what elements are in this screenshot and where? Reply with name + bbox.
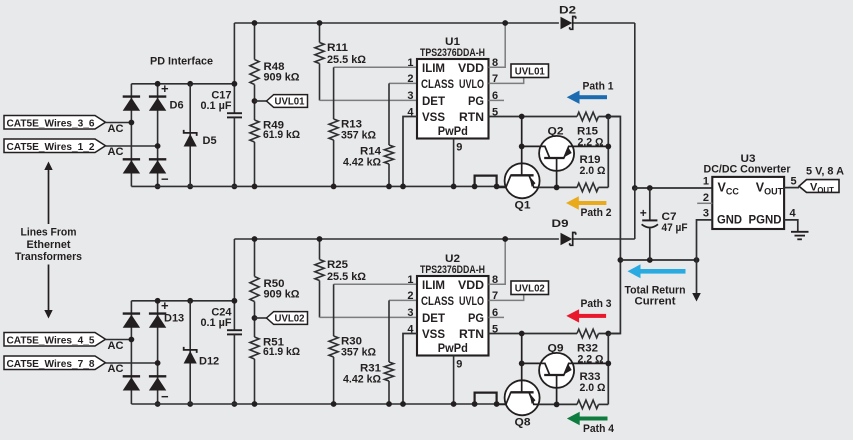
svg-text:Transformers: Transformers xyxy=(15,251,82,263)
junction xyxy=(554,185,560,191)
svg-text:UVL02: UVL02 xyxy=(515,283,546,294)
svg-text:25.5 kΩ: 25.5 kΩ xyxy=(327,54,366,66)
arrow down to pairs xyxy=(48,265,50,312)
junction xyxy=(386,184,392,190)
junction xyxy=(155,401,161,407)
junction xyxy=(317,236,323,242)
diode bridge lower-left xyxy=(123,158,140,160)
svg-text:VSS: VSS xyxy=(422,110,445,124)
wire DET xyxy=(320,316,418,318)
junction xyxy=(472,184,478,190)
wire xyxy=(234,22,559,24)
resistor R49 xyxy=(254,101,256,120)
svg-text:3: 3 xyxy=(703,208,709,220)
svg-text:3: 3 xyxy=(407,90,413,102)
svg-text:AC: AC xyxy=(108,146,124,158)
wire VSS xyxy=(403,334,417,405)
svg-text:D13: D13 xyxy=(164,313,184,325)
junction xyxy=(647,257,653,263)
svg-text:+: + xyxy=(161,81,169,96)
svg-text:Lines From: Lines From xyxy=(21,227,77,239)
junction xyxy=(632,185,638,191)
diode bridge upper-left xyxy=(123,312,140,314)
svg-text:CAT5E_Wires_4_5: CAT5E_Wires_4_5 xyxy=(7,335,95,346)
resistor R13 xyxy=(333,67,335,119)
svg-text:0.1 µF: 0.1 µF xyxy=(201,317,232,329)
wire xyxy=(607,117,609,188)
capacitor C24 xyxy=(227,329,242,331)
capacitor C17 xyxy=(227,112,242,114)
wire xyxy=(574,238,635,240)
node VOUT output xyxy=(799,180,839,193)
svg-text:D5: D5 xyxy=(203,135,217,147)
wire VCC bus xyxy=(635,187,713,189)
node CAT5E_Wires_3_6 xyxy=(4,116,106,130)
wire xyxy=(634,23,636,188)
svg-text:61.9 kΩ: 61.9 kΩ xyxy=(263,129,300,141)
svg-text:Current: Current xyxy=(635,296,676,308)
wire xyxy=(106,122,132,124)
junction xyxy=(451,184,457,190)
junction xyxy=(451,401,457,407)
svg-text:Ethernet: Ethernet xyxy=(27,239,71,251)
svg-text:1: 1 xyxy=(407,57,413,69)
svg-text:AC: AC xyxy=(108,123,124,135)
svg-text:DC/DC Converter: DC/DC Converter xyxy=(704,164,792,176)
diode D9 xyxy=(561,233,573,246)
capacitor C7 47uF xyxy=(649,188,651,220)
op-amp U2 TPS2376DDA-H xyxy=(417,276,489,356)
wire xyxy=(131,300,234,302)
junction xyxy=(519,361,525,367)
junction xyxy=(605,144,611,150)
svg-text:UVLO: UVLO xyxy=(459,77,484,91)
diode D13 bridge upper-right xyxy=(149,312,166,314)
svg-text:ILIM: ILIM xyxy=(422,61,445,75)
svg-text:1: 1 xyxy=(407,274,413,286)
wire xyxy=(131,403,508,405)
svg-text:+: + xyxy=(640,206,647,220)
junction xyxy=(554,402,560,408)
node UVL02 tap xyxy=(255,317,267,319)
node UVL01 box xyxy=(511,64,549,78)
arrow down return xyxy=(696,260,698,294)
resistor R51 xyxy=(254,318,256,337)
junction xyxy=(252,98,258,104)
junction xyxy=(494,184,500,190)
arrow Path 3 xyxy=(566,309,579,322)
junction xyxy=(155,81,161,87)
svg-text:4.42 kΩ: 4.42 kΩ xyxy=(343,374,381,386)
svg-text:Q8: Q8 xyxy=(515,417,531,429)
wire xyxy=(607,334,609,405)
junction xyxy=(187,184,193,190)
wire xyxy=(131,185,508,187)
svg-text:1: 1 xyxy=(703,176,709,188)
junction xyxy=(187,401,193,407)
wire xyxy=(234,238,559,240)
wire staple link xyxy=(475,176,497,187)
junction xyxy=(519,114,525,120)
svg-text:Path 2: Path 2 xyxy=(581,207,612,219)
wire xyxy=(130,301,132,404)
wire VSS xyxy=(403,117,417,187)
svg-text:Q2: Q2 xyxy=(548,126,564,138)
transistor Q9 xyxy=(539,353,574,388)
resistor R32 2.2 xyxy=(577,329,598,338)
wire xyxy=(157,301,159,404)
junction xyxy=(155,143,161,149)
wire xyxy=(634,188,636,239)
arrow Path 4 xyxy=(567,412,580,425)
svg-text:D6: D6 xyxy=(170,99,184,111)
wire PG stub xyxy=(489,99,505,101)
resistor R25 xyxy=(319,239,321,260)
wire VDD xyxy=(489,239,506,284)
svg-text:UVL01: UVL01 xyxy=(275,97,306,108)
resistor R31 xyxy=(388,300,390,362)
junction xyxy=(618,257,624,263)
junction xyxy=(252,315,258,321)
diode bridge lower-left xyxy=(123,375,140,377)
diode D6 bridge upper-right xyxy=(149,95,166,97)
diode bridge lower-right xyxy=(149,158,166,160)
resistor R14 xyxy=(388,83,390,145)
svg-text:RTN: RTN xyxy=(459,110,484,124)
wire GND xyxy=(697,220,713,260)
diode bridge upper-left xyxy=(123,95,140,97)
svg-text:Q9: Q9 xyxy=(548,343,564,355)
wire VDD xyxy=(489,23,506,67)
resistor R11 xyxy=(319,23,321,43)
wire PGND xyxy=(784,220,798,232)
junction xyxy=(502,236,508,242)
svg-text:61.9 kΩ: 61.9 kΩ xyxy=(263,346,300,358)
wire xyxy=(106,339,132,341)
junction xyxy=(155,184,161,190)
svg-text:GND: GND xyxy=(717,213,742,227)
resistor R50 xyxy=(254,239,256,277)
junction xyxy=(472,401,478,407)
svg-text:DET: DET xyxy=(422,311,446,325)
wire UVLO to UVL01 xyxy=(489,78,524,84)
wire xyxy=(157,84,159,187)
svg-text:AC: AC xyxy=(108,340,124,352)
svg-text:4.42 kΩ: 4.42 kΩ xyxy=(343,157,381,169)
wire VOUT xyxy=(784,187,799,189)
junction xyxy=(252,20,258,26)
svg-text:PwPd: PwPd xyxy=(438,124,468,138)
node CAT5E_Wires_1_2 xyxy=(4,139,106,153)
junction xyxy=(331,184,337,190)
wire xyxy=(233,23,235,113)
svg-text:4: 4 xyxy=(790,208,797,220)
junction xyxy=(519,331,525,337)
junction xyxy=(694,257,700,263)
junction xyxy=(187,298,193,304)
svg-text:47 µF: 47 µF xyxy=(662,222,688,234)
resistor R19 2.0 xyxy=(599,186,609,188)
arrow total return current xyxy=(628,264,641,278)
svg-text:AC: AC xyxy=(108,363,124,375)
svg-text:0.1 µF: 0.1 µF xyxy=(201,100,232,112)
zener diode D12 xyxy=(189,301,191,404)
svg-text:2.0 Ω: 2.0 Ω xyxy=(580,382,606,394)
svg-text:357 kΩ: 357 kΩ xyxy=(341,347,376,359)
junction xyxy=(129,337,135,343)
svg-text:2: 2 xyxy=(407,290,413,302)
svg-text:DET: DET xyxy=(422,94,446,108)
resistor R15 2.2 xyxy=(577,112,598,121)
svg-text:UVL02: UVL02 xyxy=(275,314,306,325)
svg-text:PG: PG xyxy=(468,94,484,108)
svg-text:2: 2 xyxy=(407,73,413,85)
svg-text:−: − xyxy=(161,389,169,404)
svg-text:D2: D2 xyxy=(559,5,576,17)
wire xyxy=(233,239,235,330)
junction xyxy=(252,184,258,190)
op-amp U3 DC/DC converter xyxy=(712,177,784,229)
svg-text:25.5 kΩ: 25.5 kΩ xyxy=(327,271,366,283)
node UVL01 tap xyxy=(255,100,267,102)
wire CLASS xyxy=(389,82,417,84)
node CAT5E_Wires_7_8 xyxy=(4,356,106,370)
svg-text:3: 3 xyxy=(407,307,413,319)
wire RTN xyxy=(489,116,578,118)
transistor Q2 xyxy=(539,136,574,171)
junction xyxy=(647,185,653,191)
wire CLASS xyxy=(389,299,417,301)
junction xyxy=(155,360,161,366)
wire ILIM xyxy=(334,283,417,285)
junction xyxy=(317,20,323,26)
arrow Path 2 xyxy=(566,196,579,209)
resistor R30 xyxy=(333,284,335,336)
node CAT5E_Wires_4_5 xyxy=(4,333,106,347)
svg-text:Path 4: Path 4 xyxy=(583,423,615,435)
svg-text:Path 1: Path 1 xyxy=(583,81,614,93)
svg-text:D12: D12 xyxy=(199,355,219,367)
svg-text:−: − xyxy=(161,172,169,187)
svg-text:5 V, 8 A: 5 V, 8 A xyxy=(806,166,844,178)
svg-text:PD Interface: PD Interface xyxy=(150,56,213,68)
diode bridge lower-right xyxy=(149,375,166,377)
svg-text:CAT5E_Wires_3_6: CAT5E_Wires_3_6 xyxy=(7,118,95,129)
svg-text:Path 3: Path 3 xyxy=(581,298,612,310)
ground xyxy=(791,231,809,233)
svg-text:PGND: PGND xyxy=(749,213,782,227)
wire PG stub xyxy=(489,316,505,318)
svg-text:TPS2376DDA-H: TPS2376DDA-H xyxy=(420,47,485,59)
junction xyxy=(252,401,258,407)
wire UVLO to UVL02 xyxy=(489,295,524,301)
junction xyxy=(386,401,392,407)
junction xyxy=(605,361,611,367)
junction xyxy=(129,120,135,126)
transistor Q1 xyxy=(505,163,540,198)
junction xyxy=(400,401,406,407)
resistor R33 2.0 xyxy=(599,403,609,405)
wire xyxy=(106,145,158,147)
junction xyxy=(232,401,238,407)
wire xyxy=(131,83,234,85)
svg-text:VDD: VDD xyxy=(458,61,484,75)
svg-text:909 kΩ: 909 kΩ xyxy=(264,72,300,84)
svg-text:909 kΩ: 909 kΩ xyxy=(264,289,300,301)
junction xyxy=(502,20,508,26)
junction xyxy=(400,184,406,190)
node UVL02 box xyxy=(511,281,549,295)
wire ILIM xyxy=(334,66,417,68)
arrow Path 1 xyxy=(567,91,580,104)
junction xyxy=(232,81,238,87)
svg-text:UVLO: UVLO xyxy=(459,294,484,308)
zener diode D5 xyxy=(189,84,191,187)
junction xyxy=(605,331,611,337)
svg-text:9: 9 xyxy=(456,359,462,371)
svg-text:ILIM: ILIM xyxy=(422,278,445,292)
svg-text:CAT5E_Wires_7_8: CAT5E_Wires_7_8 xyxy=(7,359,95,370)
svg-text:2.0 Ω: 2.0 Ω xyxy=(580,165,606,177)
svg-text:CAT5E_Wires_1_2: CAT5E_Wires_1_2 xyxy=(7,142,95,153)
wire xyxy=(574,22,635,24)
wire staple link xyxy=(475,393,497,404)
arrow up to pairs xyxy=(48,169,50,224)
svg-text:VSS: VSS xyxy=(422,327,445,341)
wire xyxy=(540,403,577,405)
junction xyxy=(232,184,238,190)
svg-text:+: + xyxy=(161,298,169,313)
svg-text:VDD: VDD xyxy=(458,278,484,292)
transistor Q8 xyxy=(505,380,540,415)
junction xyxy=(155,298,161,304)
svg-text:D9: D9 xyxy=(552,218,569,230)
svg-text:5: 5 xyxy=(791,176,797,188)
resistor R48 xyxy=(254,23,256,60)
wire RTN xyxy=(489,333,578,335)
junction xyxy=(252,236,258,242)
svg-text:R25: R25 xyxy=(327,259,348,271)
svg-text:PwPd: PwPd xyxy=(438,341,468,355)
svg-text:357 kΩ: 357 kΩ xyxy=(341,130,376,142)
svg-text:RTN: RTN xyxy=(459,327,484,341)
op-amp U1 TPS2376DDA-H xyxy=(417,59,489,139)
junction xyxy=(232,298,238,304)
wire DET xyxy=(320,99,418,101)
wire xyxy=(540,186,577,188)
svg-text:R11: R11 xyxy=(327,42,348,54)
svg-text:TPS2376DDA-H: TPS2376DDA-H xyxy=(420,264,485,276)
svg-text:9: 9 xyxy=(456,142,462,154)
svg-text:Q1: Q1 xyxy=(515,200,531,212)
junction xyxy=(331,401,337,407)
junction xyxy=(494,401,500,407)
svg-text:CLASS: CLASS xyxy=(421,294,454,308)
junction xyxy=(519,144,525,150)
svg-text:CLASS: CLASS xyxy=(421,77,454,91)
junction xyxy=(187,81,193,87)
junction xyxy=(605,114,611,120)
svg-text:UVL01: UVL01 xyxy=(515,66,546,77)
svg-text:PG: PG xyxy=(468,311,484,325)
diode D2 xyxy=(561,17,573,30)
svg-text:2: 2 xyxy=(703,192,709,204)
wire total return xyxy=(620,259,696,261)
wire xyxy=(106,362,158,364)
wire return bus xyxy=(608,117,620,334)
wire xyxy=(130,84,132,187)
